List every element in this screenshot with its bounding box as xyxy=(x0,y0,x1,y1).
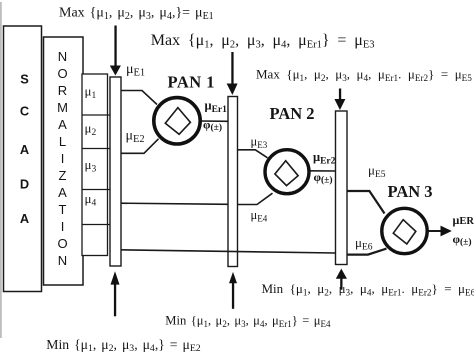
svg-text:PAN 1: PAN 1 xyxy=(168,73,216,92)
svg-text:M: M xyxy=(57,100,68,115)
svg-text:R: R xyxy=(58,83,67,98)
svg-text:C: C xyxy=(20,104,29,119)
svg-text:T: T xyxy=(59,202,67,217)
svg-text:N: N xyxy=(58,49,67,64)
svg-text:Min {μ1, μ2, μ3, μ4, μEr1} = μ: Min {μ1, μ2, μ3, μ4, μEr1} = μE4 xyxy=(165,314,331,329)
svg-text:A: A xyxy=(58,117,67,132)
svg-text:PAN 2: PAN 2 xyxy=(270,104,315,123)
svg-text:μER: μER xyxy=(453,213,474,227)
svg-text:Max {μ1, μ2, μ3, μ4,}= μE1: Max {μ1, μ2, μ3, μ4,}= μE1 xyxy=(59,6,214,22)
svg-text:L: L xyxy=(59,134,66,149)
svg-text:I: I xyxy=(61,219,65,234)
svg-text:PAN 3: PAN 3 xyxy=(388,182,433,201)
svg-text:A: A xyxy=(58,185,67,200)
svg-text:N: N xyxy=(58,253,67,268)
svg-text:S: S xyxy=(20,72,29,87)
svg-text:Min {μ1, μ2, μ3, μ4,} = μE2: Min {μ1, μ2, μ3, μ4,} = μE2 xyxy=(46,337,201,354)
svg-text:A: A xyxy=(20,142,29,157)
svg-text:O: O xyxy=(57,236,67,251)
svg-text:Z: Z xyxy=(59,168,67,183)
svg-text:Max {μ1, μ2, μ3, μ4, μEr1} = μ: Max {μ1, μ2, μ3, μ4, μEr1} = μE3 xyxy=(151,32,375,50)
svg-text:A: A xyxy=(20,211,29,226)
svg-text:D: D xyxy=(20,176,29,191)
svg-text:O: O xyxy=(57,66,67,81)
svg-text:I: I xyxy=(61,151,65,166)
